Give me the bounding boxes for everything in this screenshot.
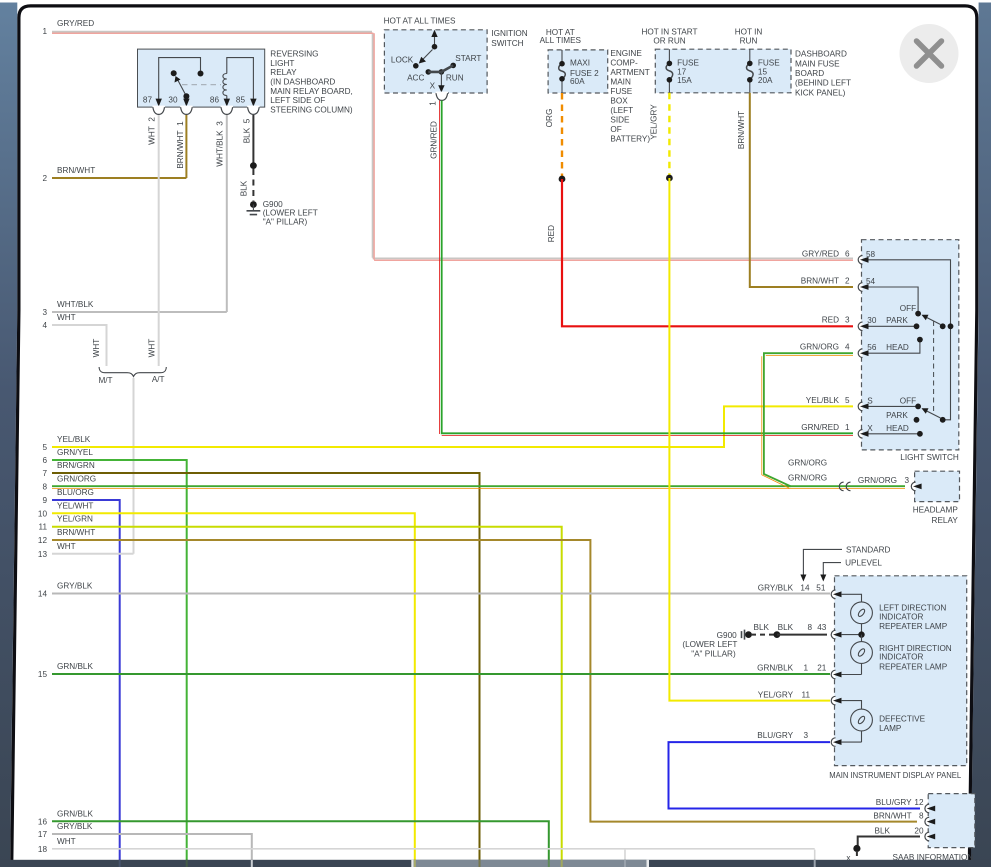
svg-text:MAIN RELAY BOARD,: MAIN RELAY BOARD, — [270, 87, 353, 96]
svg-text:LIGHT SWITCH: LIGHT SWITCH — [900, 453, 959, 462]
svg-text:OR RUN: OR RUN — [653, 36, 685, 45]
wire BRN/WHT from relay pin 30 to wire 2 — [176, 115, 186, 178]
svg-text:20A: 20A — [758, 76, 773, 85]
svg-text:BLK: BLK — [754, 623, 770, 632]
light switch internals — [866, 250, 953, 437]
svg-text:INDICATOR: INDICATOR — [879, 612, 923, 621]
svg-text:GRY/BLK: GRY/BLK — [758, 584, 794, 593]
svg-text:LEFT DIRECTION: LEFT DIRECTION — [879, 604, 946, 613]
svg-text:HEADLAMP: HEADLAMP — [913, 506, 959, 515]
svg-text:8: 8 — [919, 812, 924, 821]
headlamp relay box — [858, 471, 960, 525]
lamp right direction indicator repeater — [841, 635, 952, 675]
svg-text:21: 21 — [817, 664, 827, 673]
wire GRN/RED from ignition X to light switch — [429, 101, 854, 436]
svg-text:REPEATER LAMP: REPEATER LAMP — [879, 662, 948, 671]
svg-text:STEERING COLUMN): STEERING COLUMN) — [270, 106, 353, 115]
svg-text:WHT/BLK 3: WHT/BLK 3 — [216, 121, 225, 167]
svg-text:BRN/WHT: BRN/WHT — [801, 277, 839, 286]
svg-text:SWITCH: SWITCH — [491, 39, 523, 48]
svg-text:A/T: A/T — [152, 375, 165, 384]
node junction ORG/RED — [559, 176, 566, 183]
svg-text:60A: 60A — [570, 77, 585, 86]
wire 2 BRN/WHT — [42, 166, 186, 183]
svg-text:RED: RED — [822, 316, 839, 325]
svg-text:ALL TIMES: ALL TIMES — [540, 36, 582, 45]
svg-text:11: 11 — [39, 523, 48, 532]
wire YEL/GRY dashed from fuse 17 — [650, 93, 670, 176]
svg-text:OFF: OFF — [900, 397, 916, 406]
svg-text:12: 12 — [38, 536, 48, 545]
wire 13 WHT — [38, 542, 134, 559]
svg-text:MAIN INSTRUMENT DISPLAY PANEL: MAIN INSTRUMENT DISPLAY PANEL — [829, 771, 961, 780]
svg-text:LIGHT: LIGHT — [270, 59, 294, 68]
wire WHT from braces to wire 13 (behind rows) — [133, 378, 135, 554]
svg-text:RELAY: RELAY — [270, 68, 297, 77]
svg-text:30: 30 — [168, 95, 178, 104]
svg-text:56: 56 — [867, 343, 877, 352]
wire ORG from maxi fuse — [545, 93, 562, 177]
instrument panel wire labels — [754, 584, 827, 741]
svg-text:RUN: RUN — [446, 74, 464, 83]
svg-text:4: 4 — [42, 321, 47, 330]
svg-text:15A: 15A — [677, 76, 692, 85]
wire 17 GRY/BLK — [38, 822, 252, 867]
svg-text:STANDARD: STANDARD — [846, 545, 891, 554]
wire 3 WHT/BLK — [42, 300, 226, 317]
svg-text:BRN/WHT: BRN/WHT — [57, 166, 95, 175]
svg-text:YEL/GRY: YEL/GRY — [758, 691, 794, 700]
left sidebar strip — [0, 3, 17, 867]
svg-text:GRN/BLK: GRN/BLK — [57, 662, 93, 671]
wire BLU/GRY from panel pin 3 to saab pin 12 — [669, 742, 921, 808]
lamp defective — [841, 701, 926, 743]
svg-text:M/T: M/T — [98, 376, 112, 385]
svg-text:G900: G900 — [263, 200, 283, 209]
wire BRN/WHT from fuse 15 to light switch pin 54 — [737, 93, 853, 287]
svg-text:ORG: ORG — [545, 109, 554, 128]
inline connector on wire 8 — [839, 482, 850, 491]
svg-text:51: 51 — [816, 584, 826, 593]
svg-text:(LOWER LEFT: (LOWER LEFT — [263, 209, 318, 218]
svg-text:YEL/BLK: YEL/BLK — [57, 435, 91, 444]
svg-text:BRN/WHT: BRN/WHT — [873, 812, 911, 821]
svg-text:G900: G900 — [717, 631, 737, 640]
svg-text:BLK: BLK — [778, 623, 794, 632]
svg-text:WHT: WHT — [57, 542, 76, 551]
svg-text:HOT AT ALL TIMES: HOT AT ALL TIMES — [384, 16, 456, 25]
svg-text:15: 15 — [38, 670, 48, 679]
svg-text:WHT: WHT — [92, 339, 101, 358]
svg-text:HOT IN: HOT IN — [735, 28, 763, 37]
svg-text:HOT IN START: HOT IN START — [642, 28, 698, 37]
M/T A/T gather braces — [92, 339, 167, 385]
svg-text:UPLEVEL: UPLEVEL — [845, 559, 882, 568]
wire 9 BLU/ORG — [42, 488, 119, 861]
svg-text:87: 87 — [143, 95, 153, 104]
svg-text:REPEATER LAMP: REPEATER LAMP — [879, 622, 948, 631]
svg-text:RIGHT DIRECTION: RIGHT DIRECTION — [879, 644, 952, 653]
svg-text:9: 9 — [42, 496, 47, 505]
svg-text:GRN/RED: GRN/RED — [430, 121, 439, 159]
svg-text:IGNITION: IGNITION — [491, 29, 527, 38]
svg-text:6: 6 — [42, 456, 47, 465]
svg-text:BRN/WHT: BRN/WHT — [57, 528, 95, 537]
svg-text:5: 5 — [845, 396, 850, 405]
wire 10 YEL/WHT — [38, 501, 415, 861]
ignition switch box — [384, 16, 528, 93]
svg-text:13: 13 — [38, 550, 48, 559]
svg-text:ACC: ACC — [407, 74, 424, 83]
svg-text:GRY/BLK: GRY/BLK — [57, 822, 93, 831]
svg-text:MAIN FUSE: MAIN FUSE — [795, 59, 840, 68]
wire RED to light switch pin 30 — [547, 179, 853, 326]
ground G900 under relay — [247, 200, 318, 227]
svg-text:RED: RED — [547, 225, 556, 242]
relay coil 86/85 — [223, 58, 253, 99]
svg-text:20: 20 — [914, 826, 924, 835]
bottom dark bar — [0, 860, 991, 867]
svg-text:18: 18 — [38, 845, 48, 854]
light switch wire labels — [800, 250, 850, 433]
svg-text:GRN/BLK: GRN/BLK — [57, 809, 93, 818]
svg-text:GRN/ORG: GRN/ORG — [57, 475, 96, 484]
svg-text:WHT/BLK: WHT/BLK — [57, 300, 94, 309]
svg-text:1: 1 — [42, 27, 47, 36]
svg-text:SIDE: SIDE — [610, 115, 630, 124]
ground G900 at instrument panel — [682, 630, 827, 659]
svg-text:DEFECTIVE: DEFECTIVE — [879, 715, 925, 724]
svg-text:11: 11 — [802, 691, 811, 700]
svg-text:RUN: RUN — [740, 36, 758, 45]
svg-text:FUSE: FUSE — [610, 87, 632, 96]
svg-text:LEFT SIDE OF: LEFT SIDE OF — [270, 96, 325, 105]
svg-text:BLK 5: BLK 5 — [243, 118, 252, 143]
svg-text:43: 43 — [817, 623, 827, 632]
relay internal switch contact 87/30 — [159, 58, 221, 100]
wire 11 YEL/GRN — [39, 515, 562, 861]
svg-text:3: 3 — [803, 731, 808, 740]
svg-text:WHT 2: WHT 2 — [148, 117, 157, 145]
light switch pin connectors — [858, 255, 868, 438]
svg-text:4: 4 — [845, 343, 850, 352]
wire 1 GRY/RED — [42, 19, 853, 260]
svg-text:1: 1 — [803, 664, 808, 673]
wire 12 BRN/WHT — [38, 528, 917, 822]
saab information box — [873, 794, 974, 862]
main instrument display panel box — [829, 576, 967, 780]
wire WHT from relay pin 87 — [148, 115, 159, 366]
svg-text:COMP-: COMP- — [610, 58, 638, 67]
wire 8 GRN/ORG — [42, 475, 905, 492]
instrument panel pin connectors — [831, 590, 841, 746]
svg-text:PARK: PARK — [886, 411, 908, 420]
svg-text:RELAY: RELAY — [932, 516, 959, 525]
svg-text:2: 2 — [845, 277, 850, 286]
light switch box — [862, 240, 959, 462]
svg-text:START: START — [455, 54, 481, 63]
reversing light relay box — [138, 49, 353, 114]
relay pin bumps and arrows — [153, 99, 260, 115]
svg-text:FUSE: FUSE — [677, 59, 699, 68]
svg-text:GRN/RED: GRN/RED — [801, 423, 839, 432]
svg-text:BOARD: BOARD — [795, 69, 824, 78]
wire 15 GRN/BLK — [38, 662, 830, 679]
svg-text:DASHBOARD: DASHBOARD — [795, 50, 847, 59]
svg-text:GRY/RED: GRY/RED — [57, 19, 94, 28]
saab pin connectors — [925, 804, 935, 841]
svg-text:KICK PANEL): KICK PANEL) — [795, 88, 846, 97]
ignition switch contacts — [413, 30, 456, 101]
wire 14 GRY/BLK — [38, 582, 830, 599]
close button — [900, 24, 959, 83]
wire GRN/ORG from light switch 56 to wire 8 — [762, 353, 853, 488]
wire 7 BRN/GRN — [42, 461, 479, 861]
standard/uplevel arrows — [800, 545, 890, 581]
svg-text:FUSE: FUSE — [758, 59, 780, 68]
svg-text:OFF: OFF — [900, 304, 916, 313]
svg-text:12: 12 — [914, 798, 924, 807]
svg-text:(BEHIND LEFT: (BEHIND LEFT — [795, 79, 851, 88]
svg-text:GRN/BLK: GRN/BLK — [757, 664, 793, 673]
svg-text:YEL/BLK: YEL/BLK — [806, 396, 840, 405]
svg-text:7: 7 — [42, 469, 47, 478]
fuse 17 element — [666, 49, 673, 93]
svg-text:3: 3 — [904, 476, 909, 485]
maxi fuse 2 element — [559, 50, 566, 93]
svg-text:YEL/GRY: YEL/GRY — [650, 104, 659, 140]
svg-text:14: 14 — [800, 584, 810, 593]
svg-text:17: 17 — [38, 830, 48, 839]
lamp left direction indicator repeater — [841, 594, 948, 634]
svg-text:WHT: WHT — [148, 339, 157, 358]
svg-text:1: 1 — [429, 101, 438, 106]
svg-text:BLK: BLK — [875, 826, 891, 835]
wire 18 WHT — [38, 837, 815, 854]
svg-text:(LOWER LEFT: (LOWER LEFT — [682, 640, 737, 649]
svg-text:GRN/YEL: GRN/YEL — [57, 448, 93, 457]
svg-text:5: 5 — [42, 443, 47, 452]
svg-text:ENGINE: ENGINE — [610, 49, 642, 58]
svg-text:(LEFT: (LEFT — [610, 106, 633, 115]
wire YEL/GRY solid to instrument panel — [669, 178, 830, 701]
svg-text:OF: OF — [610, 125, 621, 134]
dashboard fuse board box — [642, 28, 851, 98]
svg-text:BRN/WHT: BRN/WHT — [737, 111, 746, 149]
svg-text:INDICATOR: INDICATOR — [879, 653, 923, 662]
svg-text:BOX: BOX — [610, 96, 628, 105]
svg-text:86: 86 — [210, 95, 220, 104]
svg-text:3: 3 — [42, 308, 47, 317]
svg-text:MAXI: MAXI — [570, 59, 590, 68]
svg-text:1: 1 — [845, 423, 850, 432]
cut-off box edges at bottom — [625, 850, 815, 867]
svg-text:LOCK: LOCK — [391, 55, 414, 64]
svg-text:2: 2 — [42, 174, 47, 183]
node junction on BLK inside panel — [841, 631, 865, 637]
svg-text:30: 30 — [867, 316, 877, 325]
svg-text:WHT: WHT — [57, 313, 76, 322]
svg-text:BLK: BLK — [240, 180, 249, 196]
svg-text:GRN/ORG: GRN/ORG — [858, 476, 897, 485]
svg-text:HEAD: HEAD — [886, 343, 909, 352]
svg-text:GRY/RED: GRY/RED — [802, 250, 839, 259]
fuse 15 element — [747, 49, 754, 93]
svg-text:MAIN: MAIN — [610, 77, 631, 86]
svg-text:PARK: PARK — [886, 316, 908, 325]
svg-text:X: X — [430, 82, 436, 91]
svg-text:8: 8 — [42, 483, 47, 492]
wire 16 GRN/BLK — [38, 809, 549, 861]
svg-text:10: 10 — [38, 509, 48, 518]
engine compartment maxi fuse box — [540, 28, 651, 143]
svg-text:BLU/GRY: BLU/GRY — [876, 798, 912, 807]
svg-text:YEL/WHT: YEL/WHT — [57, 501, 93, 510]
svg-text:6: 6 — [845, 250, 850, 259]
svg-text:YEL/GRN: YEL/GRN — [57, 515, 93, 524]
svg-text:(IN DASHBOARD: (IN DASHBOARD — [270, 78, 335, 87]
wire 5 YEL/BLK — [42, 406, 853, 452]
svg-text:8: 8 — [807, 623, 812, 632]
node junction YEL/GRY — [666, 175, 673, 182]
svg-text:BLU/ORG: BLU/ORG — [57, 488, 94, 497]
svg-text:85: 85 — [236, 95, 246, 104]
svg-text:BATTERY): BATTERY) — [610, 134, 650, 143]
svg-text:REVERSING: REVERSING — [270, 50, 318, 59]
right sidebar strip — [971, 3, 991, 867]
svg-text:BLU/GRY: BLU/GRY — [757, 731, 793, 740]
svg-text:16: 16 — [38, 817, 48, 826]
svg-text:ARTMENT: ARTMENT — [610, 68, 649, 77]
wire BLK from relay pin 85 — [240, 115, 257, 201]
svg-text:BRN/GRN: BRN/GRN — [57, 461, 95, 470]
svg-text:14: 14 — [38, 590, 48, 599]
wire BLK from saab pin 20 to ground — [846, 837, 920, 863]
svg-text:GRY/BLK: GRY/BLK — [57, 582, 93, 591]
svg-text:WHT: WHT — [57, 837, 76, 846]
svg-text:LAMP: LAMP — [879, 724, 902, 733]
svg-text:"A" PILLAR): "A" PILLAR) — [691, 649, 736, 658]
svg-text:3: 3 — [845, 316, 850, 325]
svg-text:GRN/ORG: GRN/ORG — [788, 459, 827, 468]
svg-text:"A" PILLAR): "A" PILLAR) — [263, 218, 308, 227]
wire 6 GRN/YEL — [42, 448, 186, 861]
svg-text:GRN/ORG: GRN/ORG — [800, 343, 839, 352]
wire WHT/BLK from relay pin 86 to wire 3 — [216, 115, 227, 312]
svg-text:HEAD: HEAD — [886, 424, 909, 433]
wire 4 WHT — [42, 313, 106, 366]
svg-text:BRN/WHT 1: BRN/WHT 1 — [176, 121, 185, 169]
svg-text:GRN/ORG: GRN/ORG — [788, 473, 827, 482]
